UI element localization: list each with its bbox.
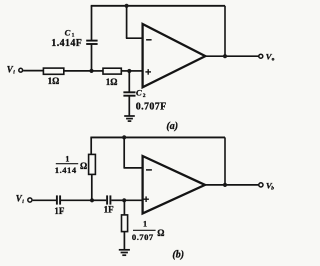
svg-text:1F: 1F: [104, 205, 115, 215]
wire node C up to R3: [91, 174, 93, 200]
node Vo label (b): [266, 180, 274, 191]
wire to inverting input of U2: [124, 167, 143, 169]
node B junction dot: [127, 69, 131, 73]
wire C2 to ground: [128, 96, 130, 116]
pin label plus (U1): [145, 69, 151, 75]
wire op-amp output (a): [205, 55, 258, 57]
junction dot on rail (b): [122, 135, 126, 139]
node A junction dot: [89, 69, 93, 73]
wire input to C3: [33, 199, 56, 201]
wire rail down to inverting input: [126, 6, 128, 38]
resistor R2 1ohm: [103, 68, 121, 74]
svg-text:C: C: [65, 27, 71, 37]
fraction bar (R3 label): [56, 163, 78, 165]
svg-text:1: 1: [143, 220, 147, 229]
wire node D to non-inverting input: [124, 199, 142, 201]
output terminal circle (b): [259, 183, 263, 187]
value label 1/1.414 ohm (R3): [55, 155, 87, 175]
wire C4 to node D: [111, 199, 124, 201]
op-amp U1: [143, 24, 206, 87]
wire top feedback rail (b): [90, 136, 225, 138]
svg-text:(b): (b): [172, 250, 184, 261]
svg-text:Ω: Ω: [80, 161, 87, 171]
pin label plus (U2): [143, 196, 149, 202]
svg-text:1.414F: 1.414F: [51, 38, 82, 49]
node C junction dot: [90, 198, 94, 202]
svg-text:b: b: [271, 185, 274, 191]
wire R1 to node A: [64, 70, 92, 72]
svg-text:Ω: Ω: [157, 228, 164, 238]
wire node B down to C2: [128, 71, 130, 92]
node Vi label (a): [7, 64, 15, 75]
ground (b): [119, 250, 130, 255]
fraction bar (R4 label): [133, 229, 156, 231]
wire C1 up to top rail: [91, 6, 93, 40]
svg-text:0.707F: 0.707F: [136, 102, 167, 113]
resistor R4 1/0.707 ohm: [122, 215, 128, 232]
wire top feedback rail (a): [91, 5, 225, 7]
node D junction dot: [122, 198, 126, 202]
svg-text:o: o: [272, 57, 275, 63]
pin label minus (U2): [146, 169, 152, 171]
wire to inverting input of U1: [126, 37, 143, 39]
svg-text:2: 2: [143, 93, 146, 99]
wire node D down to R4: [123, 200, 125, 215]
wire C3 to node C: [61, 199, 92, 201]
resistor R3 1/1.414 ohm: [89, 154, 96, 174]
wire rail down to output node (b): [224, 137, 226, 185]
svg-text:1F: 1F: [54, 206, 65, 216]
wire node A up to C1: [91, 44, 93, 71]
svg-text:1Ω: 1Ω: [48, 76, 60, 86]
op-amp U2: [143, 156, 205, 213]
value label 1/0.707 ohm (R4): [132, 220, 165, 243]
capacitor C4 1F: [107, 195, 110, 204]
svg-text:C: C: [136, 88, 142, 98]
wire node C to C4: [92, 199, 106, 201]
resistor R1 1ohm: [43, 68, 63, 74]
capacitor C1 1.414F: [86, 41, 97, 44]
wire R4 to ground: [123, 232, 125, 250]
svg-text:1: 1: [65, 155, 69, 164]
wire input to R1: [23, 70, 43, 72]
svg-text:(a): (a): [166, 121, 178, 132]
pin label minus (U1): [146, 39, 152, 41]
ground (a): [124, 116, 135, 121]
wire R2 to node B: [121, 70, 129, 72]
wire rail down to output node (a): [224, 6, 226, 56]
node Vi label (b): [16, 194, 24, 205]
node Vo label (a): [266, 52, 275, 63]
junction dot on rail (a): [125, 4, 129, 8]
wire op-amp output (b): [205, 184, 259, 186]
label C2: [136, 88, 146, 99]
svg-text:1Ω: 1Ω: [106, 77, 118, 87]
label C1: [65, 27, 75, 38]
input terminal circle (b): [28, 198, 32, 202]
svg-text:i: i: [22, 199, 24, 205]
output terminal circle (a): [259, 54, 263, 58]
capacitor C3 1F: [57, 195, 60, 204]
svg-text:0.707: 0.707: [132, 232, 154, 242]
svg-text:1.414: 1.414: [55, 165, 77, 175]
capacitor C2 0.707F: [123, 92, 135, 95]
wire node B to non-inverting input: [129, 70, 142, 72]
input terminal circle (a): [19, 68, 23, 72]
node output junction dot (b): [223, 183, 227, 187]
wire R3 up to top rail (b): [90, 137, 92, 154]
wire node A to R2: [92, 70, 104, 72]
node output junction dot (a): [223, 54, 227, 58]
wire rail down to inverting input (b): [123, 137, 125, 168]
svg-text:i: i: [13, 70, 15, 76]
